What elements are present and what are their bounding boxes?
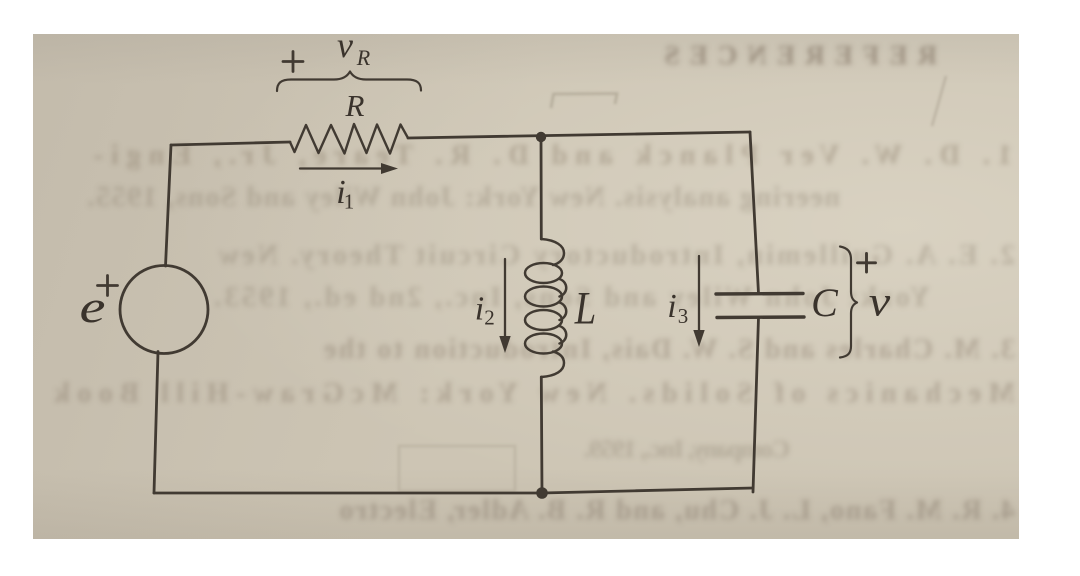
wire right upper [750, 132, 759, 294]
junction dot top node [536, 132, 546, 142]
ghost bleed-through text: reference line 3 [215, 240, 1015, 272]
arrow i3 [698, 256, 700, 333]
ghost bleed-through text: reference line 1 [79, 140, 1012, 172]
ghost bleed-through text: reference line 7 [585, 436, 790, 464]
brace right of capacitor (v) [840, 247, 857, 358]
wire right lower [753, 318, 759, 493]
wire left lower [154, 352, 158, 494]
svg-text:e: e [80, 282, 106, 332]
ghost bleed-through text: reference line 2 [85, 182, 840, 214]
svg-text:i: i [475, 291, 484, 328]
svg-text:i: i [667, 288, 676, 325]
voltage source e [120, 266, 208, 354]
junction dot bottom node [536, 487, 548, 499]
inductor L [525, 239, 566, 377]
ghost bracket mark upper middle [551, 94, 617, 109]
svg-text:1: 1 [344, 190, 355, 214]
ghost bleed-through text: REFERENCES heading [655, 40, 937, 71]
capacitor C bottom plate [717, 315, 804, 319]
arrowhead i1 [381, 163, 398, 174]
ghost bleed-through text: reference line 4 [215, 282, 930, 314]
svg-text:R: R [356, 45, 371, 70]
arrowhead i2 [499, 336, 510, 353]
svg-text:3: 3 [678, 304, 689, 328]
resistor R [290, 124, 408, 154]
ghost rectangle (bleed-through figure box) [399, 446, 515, 491]
svg-text:v: v [869, 278, 891, 324]
plus sign of v (capacitor) [858, 254, 876, 273]
svg-text:2: 2 [484, 306, 495, 330]
ghost bleed-through text: reference line 6 [47, 378, 1015, 410]
capacitor C top plate [716, 292, 803, 296]
ghost corner mark top right [932, 76, 946, 126]
wire top-left segment [171, 142, 290, 145]
wire bottom [154, 488, 753, 493]
ghost bleed-through text: reference line 8 [338, 495, 1015, 527]
wire middle lower [540, 377, 544, 493]
arrow i1 [300, 167, 384, 169]
wire middle upper [540, 137, 543, 239]
svg-text:L: L [574, 283, 596, 334]
svg-text:C: C [811, 280, 839, 325]
plus sign of source e [98, 276, 118, 296]
svg-text:R: R [345, 88, 365, 123]
arrow i2 [504, 259, 506, 338]
wire top-right segment [408, 132, 750, 138]
svg-text:v: v [337, 25, 353, 65]
arrowhead i3 [693, 330, 704, 347]
plus sign of v_R [283, 52, 303, 72]
wire left upper [166, 145, 172, 266]
ghost bleed-through text: reference line 5 [322, 334, 1015, 366]
brace over resistor (v_R) [277, 72, 421, 92]
